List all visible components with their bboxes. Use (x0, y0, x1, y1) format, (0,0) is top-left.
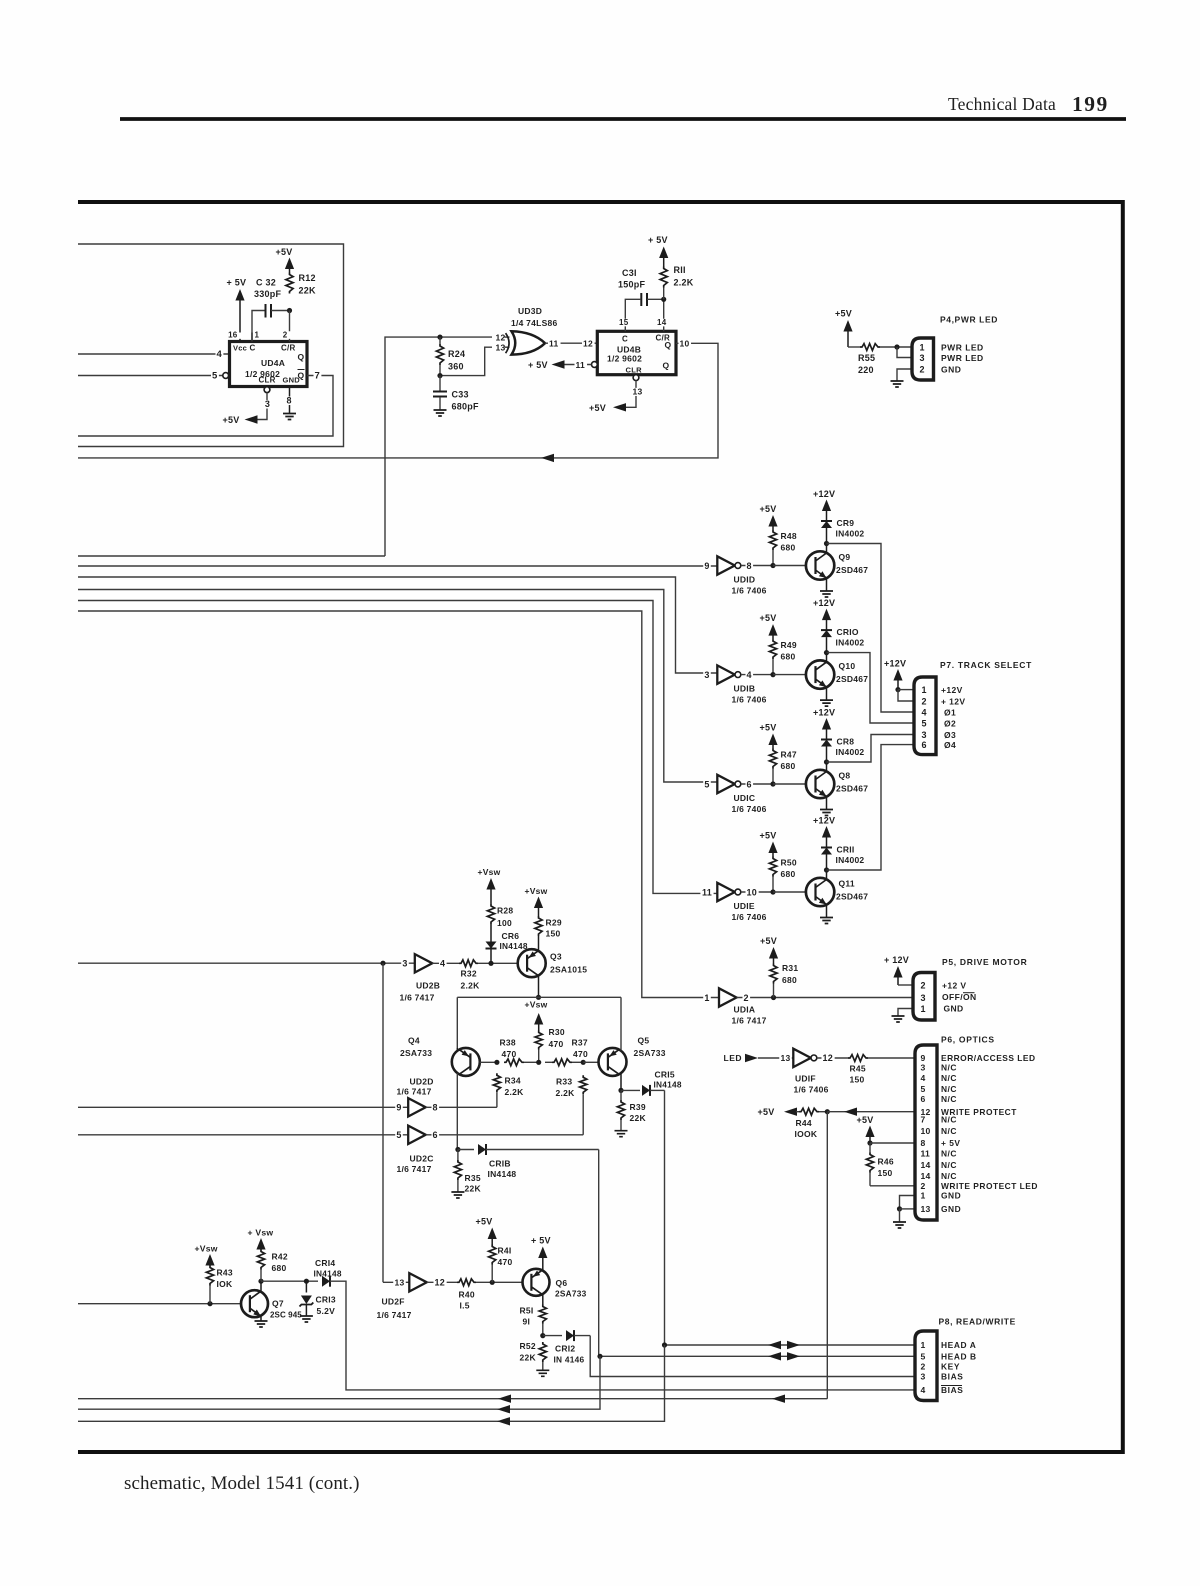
+12V supply arrow P5 (893, 966, 902, 978)
svg-text:680: 680 (272, 1263, 287, 1273)
svg-text:C/R: C/R (281, 344, 296, 353)
inverter UD1F 1/6 7406 (779, 1055, 792, 1063)
wire R44 return to left (78, 1398, 827, 1400)
wire bus line 3 to UD1B input 3 (78, 577, 717, 673)
wire bus line 6 to UD1A input 1 (78, 611, 719, 998)
svg-text:+12V: +12V (813, 598, 835, 608)
+12V supply arrow CR9 (822, 500, 831, 512)
wire base Q10 (773, 674, 806, 676)
wire Q6 emitter up (542, 1261, 544, 1270)
svg-text:8: 8 (433, 1103, 438, 1113)
svg-text:CLR: CLR (626, 365, 643, 374)
svg-text:C: C (250, 344, 256, 353)
svg-text:680pF: 680pF (452, 402, 480, 412)
svg-text:2SA1015: 2SA1015 (550, 965, 587, 975)
+5V arrow R44 line (784, 1108, 797, 1116)
svg-text:4: 4 (217, 349, 223, 360)
inverter UDIB 1/6 7406 (717, 665, 735, 683)
+Vsw supply arrow R43 (205, 1254, 214, 1266)
svg-text:3: 3 (921, 1063, 926, 1073)
resistor R29 150 (535, 916, 542, 936)
diode CRII IN4002 (821, 847, 832, 849)
svg-text:+12V: +12V (813, 708, 835, 718)
overline on BIAS pin 4 (941, 1385, 962, 1387)
svg-text:Q: Q (663, 361, 670, 371)
svg-text:+5V: +5V (760, 936, 777, 946)
svg-text:3: 3 (922, 730, 927, 740)
svg-text:CRI3: CRI3 (316, 1295, 336, 1305)
svg-text:+Vsw: +Vsw (525, 1000, 548, 1010)
wire CR14 to P8 bias vertical (330, 1281, 915, 1390)
svg-text:2.2K: 2.2K (556, 1088, 576, 1098)
svg-text:680: 680 (782, 975, 797, 985)
resistor R55 220 (848, 346, 860, 348)
svg-text:12: 12 (583, 339, 593, 349)
ground at P6 (893, 1222, 906, 1228)
+Vsw supply arrow R29 (534, 897, 543, 909)
svg-text:12: 12 (435, 1278, 446, 1288)
svg-text:R40: R40 (459, 1290, 475, 1300)
svg-text:7: 7 (921, 1115, 926, 1125)
svg-text:+5V: +5V (760, 723, 777, 733)
svg-text:R34: R34 (505, 1076, 521, 1086)
svg-text:+Vsw: +Vsw (525, 886, 548, 896)
svg-text:14: 14 (657, 318, 667, 327)
transistor Q8 2SD467 (806, 770, 834, 798)
svg-text:22K: 22K (299, 286, 317, 296)
svg-text:Q8: Q8 (839, 771, 851, 781)
svg-text:2: 2 (744, 993, 749, 1003)
wire base Q11 (773, 891, 806, 893)
wire P8 pin 1 head A (665, 1344, 916, 1346)
wire R46 to P6 pin 2 (870, 1185, 915, 1187)
svg-text:1: 1 (921, 1191, 926, 1201)
svg-text:Q4: Q4 (408, 1036, 420, 1046)
svg-text:CRI2: CRI2 (555, 1344, 575, 1354)
svg-text:4: 4 (440, 959, 445, 969)
svg-text:CRI5: CRI5 (655, 1070, 675, 1080)
+5V arrow at UD4B pin 13 (613, 403, 626, 411)
svg-text:150: 150 (546, 929, 561, 939)
svg-text:2: 2 (922, 696, 927, 706)
svg-text:3: 3 (921, 993, 926, 1003)
svg-text:+ 5V: + 5V (227, 278, 247, 288)
ground at R52 (536, 1370, 549, 1376)
resistor R45 150 (848, 1055, 868, 1062)
wire P7 pin 1 (898, 689, 914, 691)
wire pin 1 to C32 (252, 311, 265, 342)
svg-text:GND: GND (944, 1004, 964, 1014)
svg-text:2.2K: 2.2K (505, 1087, 525, 1097)
svg-text:R29: R29 (546, 918, 562, 928)
svg-text:4: 4 (747, 670, 752, 680)
svg-text:R39: R39 (630, 1102, 646, 1112)
UD4A pin 1 stub (251, 333, 253, 342)
svg-text:R42: R42 (272, 1252, 288, 1262)
svg-text:UD4A: UD4A (261, 358, 285, 368)
resistor R37 470 (552, 1059, 572, 1066)
svg-text:+5V: +5V (758, 1107, 775, 1117)
diode CR8 IN4002 (821, 739, 832, 741)
svg-text:3: 3 (921, 1372, 926, 1382)
wire Q5 collector down (620, 1073, 622, 1090)
svg-text:11: 11 (576, 360, 586, 370)
header rule (120, 117, 1126, 121)
xor gate UD3D 1/4 74LS86 (506, 333, 509, 353)
svg-text:Q: Q (298, 352, 305, 362)
diode CR6 IN4148 (490, 949, 492, 964)
svg-text:IN4002: IN4002 (836, 855, 865, 865)
svg-text:8: 8 (287, 396, 292, 406)
wire collector Q11 (826, 870, 828, 880)
wire to P4 pin 3 (897, 347, 912, 358)
svg-text:R4I: R4I (498, 1246, 512, 1256)
buffer UD2F 1/6 7417 (393, 1279, 406, 1287)
svg-text:schematic, Model 1541 (cont.): schematic, Model 1541 (cont.) (124, 1473, 360, 1494)
svg-text:N/C: N/C (941, 1149, 957, 1159)
svg-text:N/C: N/C (941, 1115, 957, 1125)
wire P5 pin 1 to ground (898, 1009, 913, 1017)
+5V arrow at pin 3 (245, 415, 258, 423)
svg-text:+ Vsw: + Vsw (248, 1228, 274, 1238)
svg-text:OFF/ON: OFF/ON (942, 992, 977, 1002)
wire UD2D input bus (78, 1106, 408, 1108)
ground at R35 (451, 1192, 464, 1198)
svg-text:12: 12 (496, 332, 506, 342)
svg-text:10: 10 (680, 339, 690, 349)
svg-text:16: 16 (228, 331, 238, 340)
resistor R41 470 (489, 1245, 496, 1265)
svg-text:5: 5 (396, 1130, 401, 1140)
wire UD2F output to R40 (427, 1281, 457, 1283)
svg-text:Vcc: Vcc (233, 344, 247, 353)
svg-text:4: 4 (921, 1073, 926, 1083)
svg-text:Q6: Q6 (556, 1278, 568, 1288)
svg-text:Q: Q (665, 340, 672, 350)
svg-text:IN4002: IN4002 (836, 747, 865, 757)
wire to P6 pin 8 (870, 1142, 915, 1144)
wire Q5 base (583, 1061, 599, 1063)
node head B (597, 1354, 602, 1359)
wire rail to Q5 emitter (620, 997, 622, 1050)
transistor Q7 2SC945 (241, 1290, 268, 1317)
svg-text:BIAS: BIAS (941, 1385, 963, 1395)
svg-text:R44: R44 (796, 1118, 812, 1128)
+5V supply arrow R31 (769, 947, 778, 959)
+Vsw supply arrow R42 (256, 1238, 265, 1250)
svg-text:3: 3 (402, 959, 407, 969)
svg-text:R43: R43 (217, 1268, 233, 1278)
wire to UD3D pin 13 (440, 347, 492, 375)
svg-text:13: 13 (395, 1278, 405, 1288)
+Vsw supply arrow R28 (486, 878, 495, 890)
wire collector Q8 (826, 762, 828, 772)
transistor Q4 2SA733 (452, 1048, 480, 1076)
svg-text:KEY: KEY (941, 1362, 960, 1372)
svg-text:470: 470 (502, 1049, 517, 1059)
svg-text:N/C: N/C (941, 1160, 957, 1170)
svg-text:UD2D: UD2D (410, 1077, 434, 1087)
svg-text:Q7: Q7 (272, 1299, 284, 1309)
svg-text:P4,PWR LED: P4,PWR LED (940, 315, 998, 325)
svg-text:1: 1 (255, 331, 260, 340)
node C32/R12/pin2 (287, 308, 292, 313)
svg-text:1/6 7417: 1/6 7417 (377, 1310, 412, 1320)
svg-text:1/6 7406: 1/6 7406 (732, 695, 767, 705)
diode CR15 IN4148 (621, 1089, 640, 1091)
svg-text:UDIB: UDIB (734, 684, 756, 694)
arrow on write protect wire (844, 1108, 857, 1116)
resistor R50 680 (769, 857, 776, 877)
node R37/Q5 base (581, 1060, 586, 1065)
svg-text:R35: R35 (465, 1173, 481, 1183)
UD4B pin 15 wire to C31 (625, 299, 640, 331)
wire UD2C output to R33 (426, 1134, 584, 1136)
+5V supply arrow Q6 (538, 1247, 547, 1259)
pin 4 label (216, 350, 224, 359)
svg-text:8: 8 (747, 561, 752, 571)
svg-text:IN4148: IN4148 (488, 1169, 517, 1179)
svg-text:7: 7 (315, 371, 321, 382)
wire bus line 4 to UD1C input 5 (78, 590, 717, 783)
diode CRIO IN4002 (821, 629, 832, 631)
svg-text:22K: 22K (630, 1113, 647, 1123)
svg-text:R48: R48 (781, 531, 797, 541)
svg-text:Q10: Q10 (839, 661, 856, 671)
diode CR9 IN4002 (821, 520, 832, 522)
UD4B pin 14 wire (663, 299, 665, 331)
wire emitter Q9 to ground (826, 578, 828, 591)
UD4A pin 8 GND stub (289, 387, 291, 414)
wire UD1A output to P5 (737, 997, 914, 999)
svg-text:8: 8 (921, 1138, 926, 1148)
UD4B CLR pin 13 bubble (633, 375, 639, 381)
resistor R30 470 (535, 1031, 542, 1050)
svg-text:1/6 7417: 1/6 7417 (397, 1164, 432, 1174)
arrow head B return (497, 1405, 510, 1413)
svg-text:UDIE: UDIE (734, 901, 755, 911)
svg-text:2SA733: 2SA733 (400, 1048, 432, 1058)
connector P5 shell (913, 973, 935, 1021)
svg-text:680: 680 (781, 869, 796, 879)
wire C32 to R12 node (271, 310, 290, 312)
svg-text:22K: 22K (465, 1184, 482, 1194)
svg-text:C: C (622, 335, 628, 344)
resistor R52 22K (539, 1342, 546, 1362)
wire P7 pin 2 (898, 690, 914, 701)
node R51/CR12/R52 (540, 1333, 545, 1338)
svg-text:IN4148: IN4148 (500, 941, 528, 951)
svg-text:6: 6 (922, 740, 927, 750)
transistor Q9 2SD467 (806, 551, 834, 579)
ground at C33 (434, 410, 447, 416)
wire CLR pin 3 (248, 393, 267, 420)
+Vsw supply arrow R30 (534, 1013, 543, 1025)
connector P6 shell (915, 1045, 937, 1220)
ground at CR13 (300, 1316, 313, 1322)
svg-text:CR9: CR9 (837, 518, 855, 528)
wire R44 node to P6 pin 12 (827, 1111, 915, 1113)
svg-text:9: 9 (921, 1053, 926, 1063)
svg-text:RII: RII (674, 265, 686, 275)
svg-text:11: 11 (702, 887, 712, 897)
svg-text:+5V: +5V (223, 415, 240, 425)
node R31 (771, 995, 776, 1000)
connector P4 shell (912, 338, 934, 380)
svg-text:199: 199 (1072, 92, 1109, 116)
resistor R33 2.2K (580, 1075, 587, 1094)
UD4B pin 10 output wire with feedback to left (78, 343, 718, 458)
svg-text:P7. TRACK SELECT: P7. TRACK SELECT (940, 660, 1032, 670)
svg-text:CRII: CRII (837, 845, 855, 855)
svg-text:HEAD A: HEAD A (941, 1340, 976, 1350)
svg-text:2SC 945: 2SC 945 (270, 1311, 302, 1320)
node head A (662, 1342, 667, 1347)
UD4A CLR pin 3 bubble (264, 387, 270, 393)
svg-text:R33: R33 (556, 1077, 572, 1087)
node collector Q9 (824, 541, 829, 546)
svg-text:UD2F: UD2F (382, 1297, 405, 1307)
transistor Q6 2SA733 (523, 1269, 550, 1296)
svg-text:UDIC: UDIC (734, 793, 756, 803)
ground Q11 (820, 918, 833, 924)
svg-text:5: 5 (921, 1352, 926, 1362)
node base Q10 (770, 672, 775, 677)
resistor R43 10K (206, 1266, 213, 1286)
+5V arrow at pin 11 (552, 360, 565, 368)
wire UDIC output (741, 783, 773, 785)
wire Q7 node to CR14 (261, 1280, 318, 1282)
svg-text:GND: GND (941, 1191, 961, 1201)
wire bus line 5 to UD1E input 11 (78, 601, 717, 894)
svg-text:11: 11 (549, 339, 559, 349)
svg-text:C3I: C3I (622, 268, 637, 278)
svg-text:PWR LED: PWR LED (941, 343, 984, 353)
wire base Q8 (773, 783, 806, 785)
svg-text:2.2K: 2.2K (674, 278, 694, 288)
svg-text:5.2V: 5.2V (317, 1306, 336, 1316)
svg-text:15: 15 (619, 318, 629, 327)
resistor R49 680 (769, 639, 776, 659)
resistor R51 91 (539, 1305, 546, 1324)
svg-text:GND: GND (941, 1204, 961, 1214)
wire CLR pin 13 (617, 381, 636, 408)
svg-text:470: 470 (573, 1049, 588, 1059)
node R32/CR6 (488, 961, 493, 966)
svg-text:6: 6 (433, 1130, 438, 1140)
svg-text:1/2 9602: 1/2 9602 (607, 354, 642, 364)
inverter UDIC 1/6 7406 (717, 775, 735, 793)
arrow head A return (497, 1417, 510, 1425)
wire Q10 collector to P7 (827, 653, 915, 723)
svg-text:1/6 7406: 1/6 7406 (732, 586, 767, 596)
svg-text:150: 150 (878, 1168, 893, 1178)
+12V supply arrow P7 (893, 669, 902, 681)
svg-text:+12V: +12V (941, 685, 963, 695)
resistor R34 2.2K (493, 1073, 500, 1092)
svg-text:CRIB: CRIB (489, 1159, 511, 1169)
svg-text:5: 5 (921, 1084, 926, 1094)
resistor R32 2.2K (459, 960, 478, 967)
svg-text:N/C: N/C (941, 1063, 957, 1073)
svg-text:2: 2 (921, 1181, 926, 1191)
svg-text:IN4002: IN4002 (836, 529, 865, 539)
resistor R47 680 (769, 749, 776, 769)
svg-text:R49: R49 (781, 640, 797, 650)
svg-text:150pF: 150pF (618, 280, 646, 290)
zener CR13 5.2V (305, 1281, 307, 1292)
node collector Q10 (824, 650, 829, 655)
wire rail to Q4 (456, 997, 458, 1048)
svg-text:R37: R37 (572, 1038, 588, 1048)
svg-text:C 32: C 32 (256, 278, 276, 288)
buffer UD2D 1/6 7417 (408, 1098, 426, 1116)
inner box around UD4A (78, 244, 344, 447)
wire UD3D output to UD4B pin 12 (545, 342, 597, 344)
svg-text:9I: 9I (523, 1317, 531, 1327)
svg-text:+12V: +12V (884, 659, 906, 669)
svg-text:360: 360 (448, 362, 464, 372)
wire UD4A pin 5 input (78, 375, 223, 377)
connector P8 shell (915, 1331, 937, 1401)
wire UD2B input bus (78, 962, 415, 964)
IC UD4B 1/2 9602 one-shot (597, 331, 676, 374)
+12V supply arrow CRII (822, 826, 831, 838)
IC UD4A 1/2 9602 one-shot (230, 342, 308, 387)
svg-text:2SD467: 2SD467 (836, 565, 868, 575)
svg-text:Q3: Q3 (550, 952, 562, 962)
svg-text:+ 5V: + 5V (531, 1236, 551, 1246)
+5V supply arrow R46 (865, 1126, 874, 1138)
svg-text:CR8: CR8 (837, 737, 855, 747)
wire UDID output (741, 565, 773, 567)
svg-text:R30: R30 (549, 1027, 565, 1037)
node P6 gnd (897, 1206, 902, 1211)
svg-text:N/C: N/C (941, 1084, 957, 1094)
wire bus line 2 to UD1D input 9 (78, 565, 717, 567)
wire Q7 base bus (78, 1303, 242, 1305)
svg-text:IN 4146: IN 4146 (554, 1355, 585, 1365)
svg-text:UD3D: UD3D (518, 306, 542, 316)
svg-text:N/C: N/C (941, 1171, 957, 1181)
svg-text:+Vsw: +Vsw (195, 1244, 218, 1254)
inverter UDID 1/6 7406 (717, 556, 735, 574)
svg-text:1/6 7417: 1/6 7417 (400, 993, 435, 1003)
svg-text:ERROR/ACCESS LED: ERROR/ACCESS LED (941, 1053, 1036, 1063)
wire base Q9 (773, 565, 806, 567)
resistor R11 2.2K (660, 267, 667, 288)
wire UD2C input bus (78, 1134, 408, 1136)
wire Q3 emitter to R29 (538, 936, 540, 951)
svg-text:+5V: +5V (476, 1217, 493, 1227)
svg-text:Technical Data: Technical Data (948, 94, 1056, 114)
wire to UD3D pin 12 from left bus (385, 337, 492, 556)
svg-text:Ø4: Ø4 (944, 740, 956, 750)
svg-text:LED: LED (724, 1053, 743, 1063)
wire head A return to left (78, 1345, 665, 1421)
svg-text:13: 13 (496, 343, 506, 353)
svg-text:IN4148: IN4148 (654, 1080, 682, 1090)
svg-text:BIAS: BIAS (941, 1372, 963, 1382)
wire emitter Q11 to ground (826, 905, 828, 918)
ground at R39 (615, 1131, 628, 1137)
wire bus line 1 (to UD3D) (78, 555, 385, 557)
svg-text:R50: R50 (781, 858, 797, 868)
svg-text:R45: R45 (850, 1064, 866, 1074)
svg-text:+12V: +12V (813, 816, 835, 826)
svg-text:1/6 7406: 1/6 7406 (794, 1085, 829, 1095)
wire CR18 to P8 head B vertical (598, 1150, 600, 1357)
